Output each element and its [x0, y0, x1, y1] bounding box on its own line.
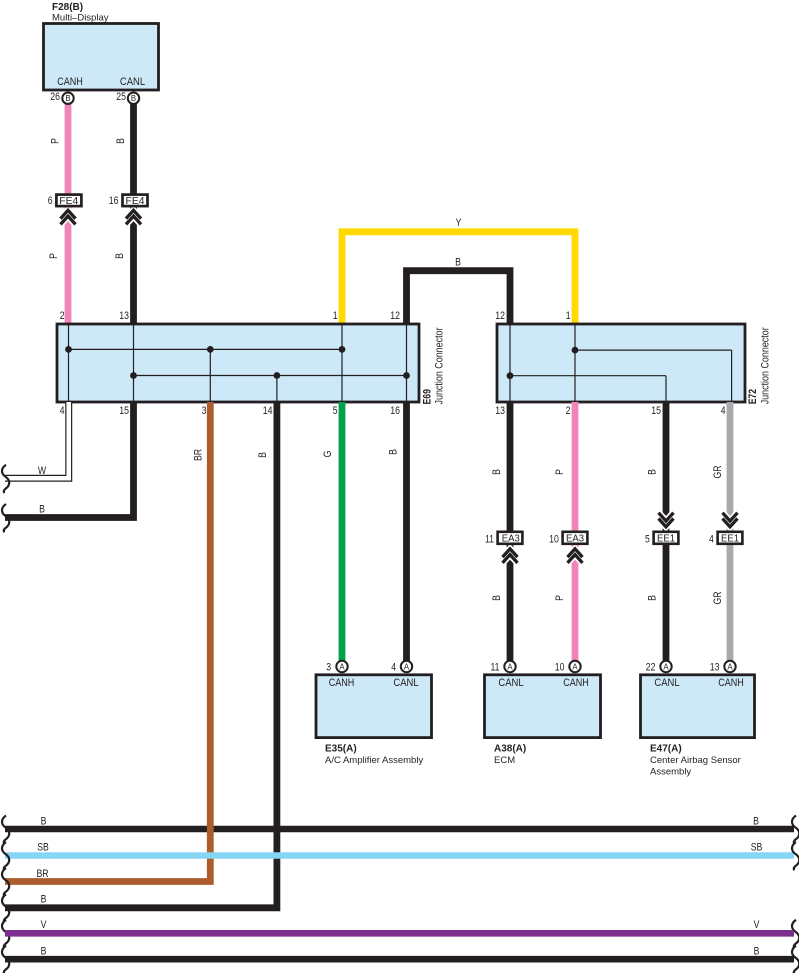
component A38(A) ECM box: [485, 675, 601, 738]
terminal 10 A: [569, 661, 580, 672]
svg-text:12: 12: [390, 310, 400, 322]
svg-text:15: 15: [119, 405, 129, 417]
svg-text:CANL: CANL: [654, 677, 679, 689]
E69 internal bus upper: [69, 348, 343, 350]
svg-text:Multi–Display: Multi–Display: [52, 13, 109, 24]
E69 junction dots: [65, 346, 410, 379]
svg-text:CANH: CANH: [329, 677, 355, 689]
svg-text:Assembly: Assembly: [650, 767, 691, 778]
svg-text:B: B: [41, 816, 47, 828]
terminal 26 B: [62, 93, 73, 104]
wire B jumper E69 pin12 to E72 pin12: [407, 271, 511, 324]
E72 internal vertical pin15: [665, 376, 667, 402]
svg-text:B: B: [388, 449, 400, 455]
svg-text:16: 16: [390, 405, 400, 417]
junction connector E69 box: [57, 324, 419, 402]
svg-text:Junction Connector: Junction Connector: [434, 327, 446, 404]
wire BR E69 pin3 down to left: [5, 402, 210, 882]
wire B F28 pin25 to E69 pin13: [130, 103, 137, 324]
svg-text:B: B: [41, 945, 47, 957]
svg-text:E35(A): E35(A): [325, 744, 357, 755]
svg-text:25: 25: [116, 91, 126, 103]
svg-text:CANH: CANH: [563, 677, 589, 689]
svg-text:1: 1: [566, 310, 571, 322]
wire G E69 pin5 to E35 pin3: [339, 402, 346, 661]
E72 internal vertical pin1-pin2: [574, 324, 576, 402]
svg-text:P: P: [48, 253, 60, 259]
svg-text:B: B: [647, 469, 659, 475]
terminal 25 B: [128, 93, 139, 104]
svg-text:3: 3: [326, 661, 331, 673]
svg-text:B: B: [115, 138, 127, 144]
E69 internal vertical pin12-pin16: [406, 324, 408, 402]
svg-text:B: B: [647, 595, 659, 601]
wire W E69 pin4 to left: [2, 402, 69, 493]
svg-text:V: V: [41, 919, 47, 931]
svg-text:B: B: [39, 504, 45, 516]
svg-text:F28(B): F28(B): [52, 2, 83, 13]
svg-text:W: W: [38, 465, 47, 477]
bus wire B upper horizontal: [5, 826, 794, 833]
svg-text:EE1: EE1: [721, 533, 739, 545]
E69 internal vertical pin14: [276, 376, 278, 403]
E69 internal vertical pin13-pin15: [133, 324, 135, 402]
svg-text:B: B: [753, 816, 759, 828]
svg-text:E47(A): E47(A): [650, 744, 682, 755]
svg-text:P: P: [554, 469, 566, 475]
svg-text:EE1: EE1: [657, 533, 675, 545]
component E35(A) A/C Amplifier Assembly box: [316, 675, 432, 738]
svg-text:GR: GR: [712, 591, 724, 604]
svg-text:5: 5: [645, 533, 650, 545]
wire B E72 pin13 to A38 pin11: [507, 402, 514, 661]
svg-text:G: G: [322, 451, 334, 458]
svg-text:10: 10: [549, 533, 559, 545]
svg-text:5: 5: [333, 405, 338, 417]
svg-text:3: 3: [202, 405, 207, 417]
wire B E69 pin15 to left: [2, 402, 134, 532]
svg-text:1: 1: [333, 310, 338, 322]
svg-text:10: 10: [555, 661, 565, 673]
svg-text:CANH: CANH: [57, 76, 83, 88]
bus squiggles right: [792, 816, 799, 844]
svg-text:4: 4: [60, 405, 65, 417]
svg-text:B: B: [455, 257, 461, 269]
svg-text:14: 14: [263, 405, 273, 417]
svg-text:FE4: FE4: [126, 196, 145, 207]
wire B E69 pin16 to E35 pin4: [403, 402, 410, 661]
bus wire SB horizontal: [5, 852, 794, 859]
svg-text:SB: SB: [751, 842, 763, 854]
svg-text:EA3: EA3: [566, 533, 584, 545]
connector FE4 pin16: [109, 195, 148, 225]
terminal 4 A: [401, 661, 412, 672]
terminal 13 A: [724, 661, 735, 672]
E69 internal vertical pin1-pin5: [341, 324, 343, 402]
svg-text:CANH: CANH: [718, 677, 744, 689]
E69 internal vertical pin3: [209, 349, 211, 402]
svg-text:B: B: [41, 894, 47, 906]
svg-text:CANL: CANL: [120, 76, 145, 88]
svg-text:22: 22: [646, 661, 656, 673]
terminal 3 A: [336, 661, 347, 672]
wire P E72 pin2 to A38 pin10: [572, 402, 579, 661]
svg-text:P: P: [50, 138, 62, 144]
svg-text:Junction Connector: Junction Connector: [760, 327, 772, 404]
svg-text:4: 4: [721, 405, 726, 417]
svg-text:ECM: ECM: [494, 755, 515, 766]
svg-text:16: 16: [109, 195, 119, 207]
svg-text:GR: GR: [712, 465, 724, 478]
svg-text:B: B: [114, 253, 126, 259]
svg-text:SB: SB: [37, 842, 49, 854]
svg-text:12: 12: [495, 310, 505, 322]
wire B E69 pin14 down to left: [5, 402, 277, 908]
svg-text:FE4: FE4: [59, 196, 78, 207]
svg-text:CANL: CANL: [498, 677, 523, 689]
wire P F28 pin26 to E69 pin2: [65, 103, 72, 324]
svg-text:13: 13: [495, 405, 505, 417]
bus wire V horizontal: [5, 930, 794, 937]
svg-text:2: 2: [60, 310, 65, 322]
svg-text:13: 13: [119, 310, 129, 322]
component F28(B) Multi-Display box: [44, 24, 159, 91]
svg-text:13: 13: [710, 661, 720, 673]
svg-text:B: B: [491, 469, 503, 475]
bus wire B lower horizontal: [5, 956, 794, 963]
wire Y jumper E69 pin1 to E72 pin1: [342, 232, 575, 324]
svg-text:EA3: EA3: [502, 533, 520, 545]
svg-text:A38(A): A38(A): [494, 744, 526, 755]
svg-text:B: B: [754, 945, 760, 957]
connector EE1 pin4: [709, 513, 742, 546]
E72 internal branch lower: [510, 375, 666, 377]
wire GR E72 pin4 to E47 pin13: [727, 402, 734, 661]
terminal 22 A: [660, 661, 671, 672]
svg-text:V: V: [754, 919, 760, 931]
E72 internal vertical pin4: [731, 350, 733, 402]
connector EE1 pin5: [645, 513, 678, 546]
connector FE4 pin6: [48, 195, 82, 225]
component E47(A) Center Airbag Sensor Assembly box: [641, 675, 755, 738]
svg-text:6: 6: [48, 195, 53, 207]
svg-text:Y: Y: [456, 217, 462, 229]
svg-text:4: 4: [391, 661, 396, 673]
svg-text:B: B: [491, 595, 503, 601]
E72 junction dots: [507, 347, 579, 379]
terminal 11 A: [504, 661, 515, 672]
svg-text:11: 11: [491, 661, 500, 673]
E69 internal bus lower: [134, 375, 407, 377]
svg-text:15: 15: [651, 405, 661, 417]
svg-text:BR: BR: [193, 449, 205, 461]
svg-text:4: 4: [709, 533, 714, 545]
svg-text:E72: E72: [747, 389, 759, 404]
E69 internal vertical pin2-pin4: [68, 324, 70, 402]
svg-text:B: B: [257, 452, 269, 458]
svg-text:P: P: [554, 595, 566, 601]
bus squiggles left: [2, 816, 9, 844]
connector EA3 pin11: [485, 532, 522, 563]
svg-text:2: 2: [566, 405, 571, 417]
wire B E72 pin15 to E47 pin22: [663, 402, 670, 661]
junction connector E72 box: [497, 324, 745, 402]
svg-text:BR: BR: [36, 868, 48, 880]
E72 internal branch upper: [575, 349, 732, 351]
connector EA3 pin10: [549, 532, 587, 563]
svg-text:CANL: CANL: [393, 677, 418, 689]
svg-text:26: 26: [50, 91, 60, 103]
svg-text:11: 11: [485, 533, 494, 545]
svg-text:Center Airbag Sensor: Center Airbag Sensor: [650, 755, 741, 766]
svg-text:A/C Amplifier Assembly: A/C Amplifier Assembly: [325, 755, 423, 766]
E72 internal vertical pin12-pin13: [509, 324, 511, 402]
svg-text:E69: E69: [422, 389, 434, 404]
